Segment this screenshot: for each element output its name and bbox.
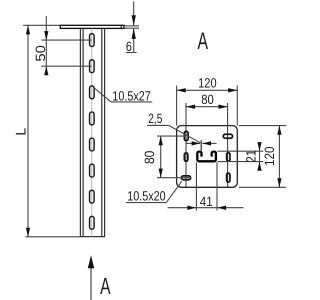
slot top-right (section) xyxy=(223,134,232,138)
slot top-left (section) xyxy=(184,131,188,140)
dimension 80 (left side) xyxy=(142,136,191,178)
dimension L xyxy=(13,25,81,237)
svg-text:120: 120 xyxy=(262,147,277,167)
svg-text:L: L xyxy=(13,128,29,136)
dimension 80 (top) xyxy=(186,92,228,109)
extension line right column (through slots) xyxy=(227,103,229,187)
label 10.5x27 with leader xyxy=(94,88,152,104)
svg-text:10.5x20: 10.5x20 xyxy=(127,189,166,204)
slot column (front view, 8 slots 10.5x27) xyxy=(90,34,95,230)
C-channel cross-section (thick) xyxy=(197,152,216,162)
slot bottom-left (section) xyxy=(181,176,190,180)
slot column centerline (front view) xyxy=(91,28,93,236)
extension line left column (through slots) xyxy=(185,103,187,187)
svg-text:10.5x27: 10.5x27 xyxy=(112,88,151,103)
dimension 50 xyxy=(33,16,91,75)
dimension 21 (right of C-profile) xyxy=(218,142,264,171)
svg-text:120: 120 xyxy=(198,76,217,91)
dimension 2,5 (lip thickness) xyxy=(147,111,216,151)
dimension 120 (right side) xyxy=(239,126,286,188)
dimension 6 (plate thickness) xyxy=(124,2,139,55)
svg-text:80: 80 xyxy=(142,151,157,165)
slot bottom-right (section) xyxy=(227,173,230,182)
plate outline (section view A) xyxy=(177,126,238,188)
label 10.5x20 with leader xyxy=(126,181,182,203)
channel profile (front view) xyxy=(80,28,105,236)
dimension 41 (bottom) xyxy=(168,162,244,210)
svg-text:41: 41 xyxy=(200,194,213,209)
dimension 120 (top) xyxy=(177,76,238,126)
view arrow A (bottom) xyxy=(88,255,111,300)
svg-text:6: 6 xyxy=(126,39,132,54)
svg-text:21: 21 xyxy=(243,150,258,163)
svg-text:A: A xyxy=(197,28,208,55)
slot mid-left (section) xyxy=(184,153,188,161)
svg-text:2,5: 2,5 xyxy=(148,111,162,126)
svg-text:80: 80 xyxy=(201,92,214,107)
svg-text:A: A xyxy=(100,273,111,299)
slot mid-right (section) xyxy=(227,153,230,161)
top plate (front view) xyxy=(60,25,124,28)
svg-text:50: 50 xyxy=(33,45,48,62)
